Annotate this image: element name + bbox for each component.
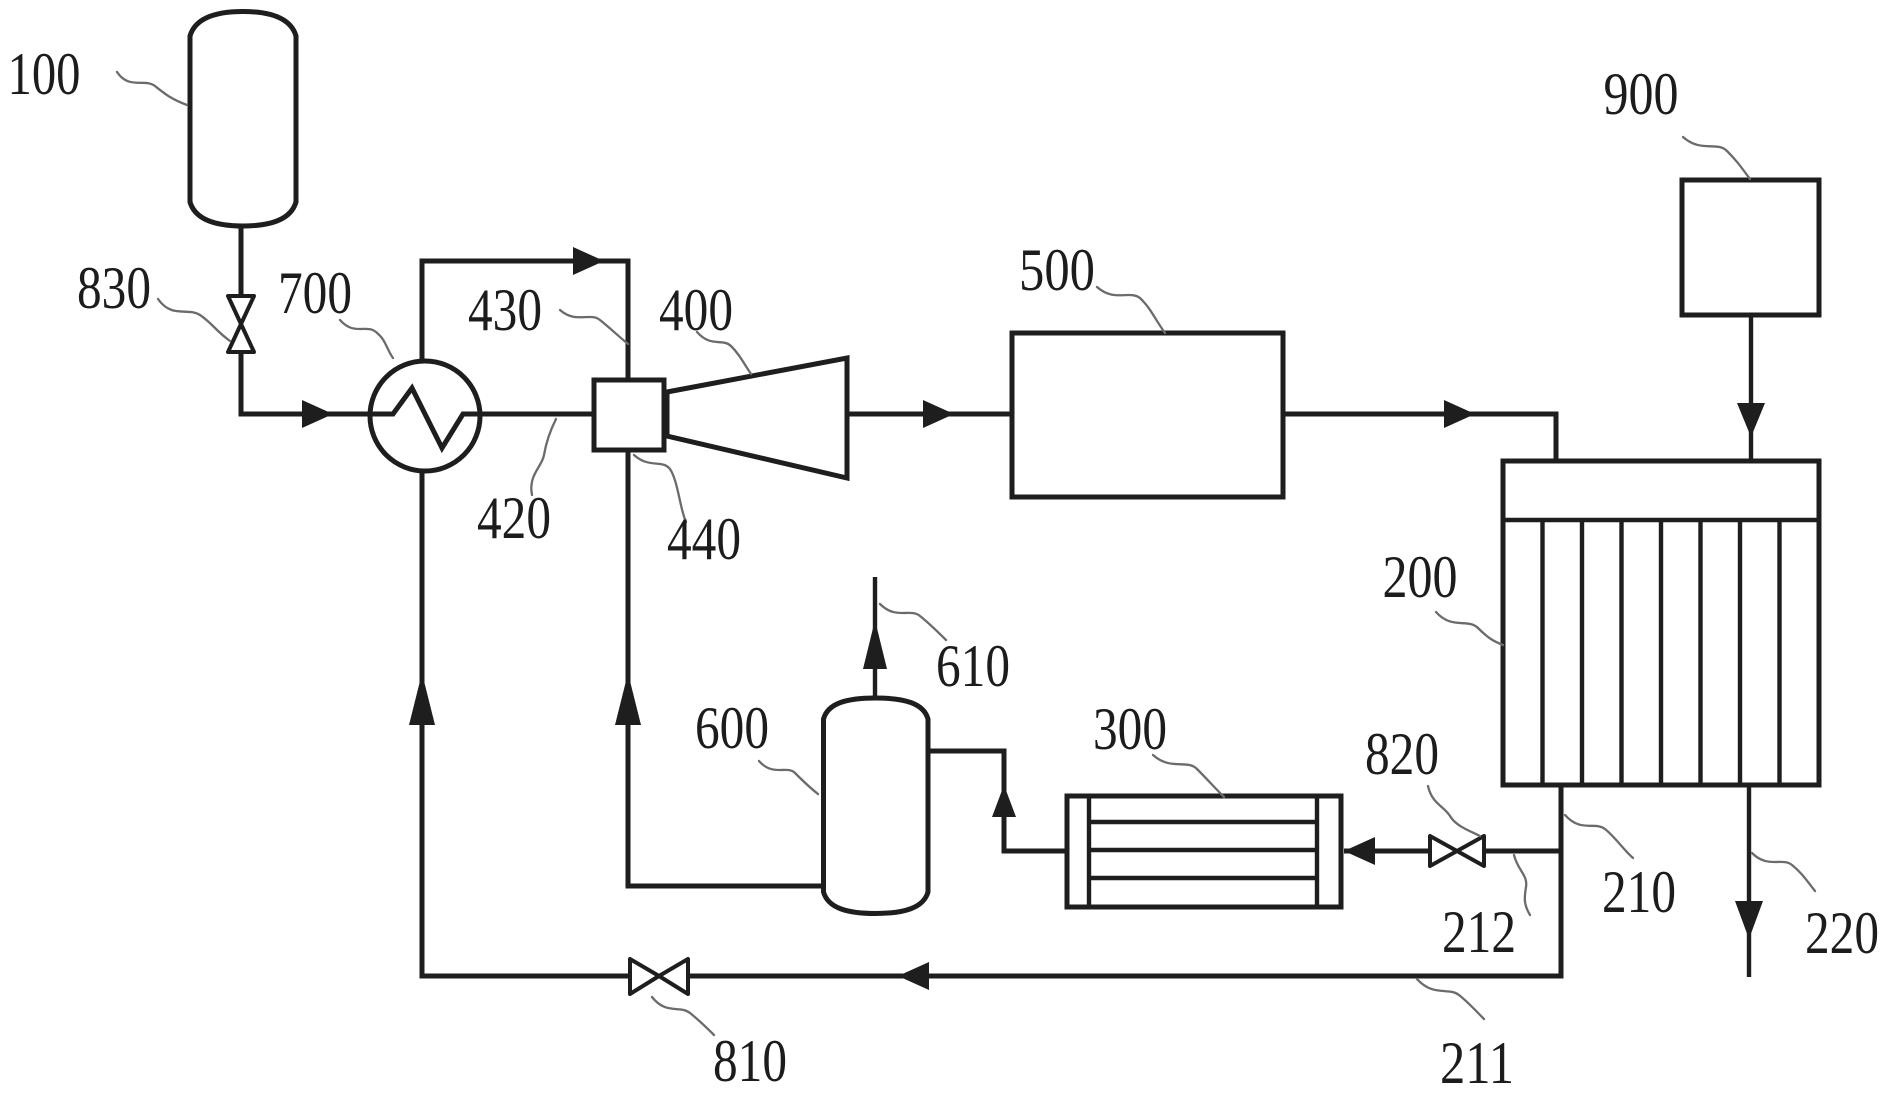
tank 100 bbox=[190, 12, 296, 227]
leader line for label 211 bbox=[1417, 979, 1484, 1019]
leader line for label 700 bbox=[340, 320, 393, 358]
valve 830 bbox=[228, 296, 254, 352]
svg-text:610: 610 bbox=[936, 633, 1010, 699]
wire 212 from stack drain to valve 820 bbox=[1484, 849, 1561, 854]
label 220 bbox=[1805, 900, 1879, 966]
wire box 900 down to stack 200 bbox=[1749, 315, 1753, 461]
label 700 bbox=[278, 260, 352, 326]
svg-text:210: 210 bbox=[1602, 859, 1676, 925]
arrow on bypass 430 bbox=[573, 247, 604, 275]
wire vessel 600 outlet to cooler 300 bbox=[928, 751, 1069, 851]
leader line for label 220 bbox=[1752, 853, 1815, 891]
wire vent 610 from vessel 600 top bbox=[873, 577, 877, 696]
wire 440 mixer bottom to vessel 600 bbox=[628, 450, 823, 886]
svg-text:440: 440 bbox=[667, 506, 741, 572]
label 810 bbox=[713, 1028, 787, 1094]
leader line for label 900 bbox=[1683, 137, 1750, 179]
leader line for label 420 bbox=[531, 419, 556, 495]
svg-text:600: 600 bbox=[695, 695, 769, 761]
cooler 300 bbox=[1067, 796, 1341, 907]
wire valve 820 to cooler 300 bbox=[1344, 849, 1430, 854]
svg-text:400: 400 bbox=[659, 277, 733, 343]
mixer 420 box bbox=[594, 380, 664, 450]
turbine 400 bbox=[667, 358, 847, 478]
leader line for label 400 bbox=[697, 332, 751, 374]
wire tank 100 to valve 830 bbox=[239, 226, 244, 296]
svg-text:420: 420 bbox=[477, 485, 551, 551]
arrow into box 500 bbox=[923, 400, 954, 428]
leader line for label 610 bbox=[880, 604, 946, 640]
leader line for label 810 bbox=[652, 997, 714, 1035]
arrow up on riser bbox=[409, 673, 435, 725]
label 211 bbox=[1440, 1030, 1514, 1094]
stack 200 bbox=[1503, 461, 1819, 785]
leader line for label 440 bbox=[634, 455, 686, 522]
leader line for label 300 bbox=[1153, 755, 1224, 797]
wire box 500 to stack 200 top left bbox=[1283, 414, 1556, 463]
label 820 bbox=[1365, 721, 1439, 787]
svg-text:700: 700 bbox=[278, 260, 352, 326]
arrow up on vessel outlet riser bbox=[992, 785, 1016, 817]
label 420 bbox=[477, 485, 551, 551]
label 500 bbox=[1019, 237, 1095, 303]
svg-text:900: 900 bbox=[1604, 61, 1679, 127]
svg-text:220: 220 bbox=[1805, 900, 1879, 966]
svg-text:830: 830 bbox=[77, 255, 151, 321]
svg-text:810: 810 bbox=[713, 1028, 787, 1094]
leader line for label 500 bbox=[1097, 287, 1165, 333]
svg-text:212: 212 bbox=[1442, 899, 1516, 965]
label 300 bbox=[1093, 696, 1167, 762]
leader line for label 212 bbox=[1514, 855, 1530, 915]
box 500 bbox=[1012, 333, 1283, 497]
arrow up on wire 440 bbox=[615, 673, 641, 725]
wire valve 830 to heat exchanger 700 bbox=[241, 352, 370, 414]
leader line for label 600 bbox=[759, 761, 818, 794]
svg-text:500: 500 bbox=[1019, 237, 1095, 303]
label 100 bbox=[8, 41, 81, 107]
leader line for label 100 bbox=[117, 72, 187, 105]
label 610 bbox=[936, 633, 1010, 699]
label 400 bbox=[659, 277, 733, 343]
label 600 bbox=[695, 695, 769, 761]
arrow into heat exchanger 700 bbox=[302, 400, 333, 428]
wire 430 bypass from heat exchanger top to mixer top bbox=[422, 261, 628, 380]
label 200 bbox=[1383, 544, 1458, 610]
arrow left on bottom rail 211 bbox=[898, 962, 929, 990]
label 900 bbox=[1604, 61, 1679, 127]
arrow on wire to stack 200 bbox=[1444, 400, 1475, 428]
wire 220 stack outlet down bbox=[1747, 784, 1751, 977]
box 900 bbox=[1682, 180, 1819, 315]
label 430 bbox=[468, 277, 542, 343]
wire bottom rail 211 from valve 810 to stack 200 bottom bbox=[688, 784, 1561, 976]
leader line for label 200 bbox=[1436, 612, 1503, 645]
vessel 600 bbox=[824, 698, 929, 914]
valve 820 bbox=[1430, 836, 1484, 866]
label 210 bbox=[1602, 859, 1676, 925]
arrow left into cooler 300 bbox=[1344, 837, 1375, 865]
wire turbine 400 outlet to box 500 bbox=[846, 412, 1012, 417]
svg-text:211: 211 bbox=[1440, 1030, 1514, 1094]
svg-text:300: 300 bbox=[1093, 696, 1167, 762]
label 440 bbox=[667, 506, 741, 572]
leader line for label 830 bbox=[158, 299, 230, 341]
leader line for label 210 bbox=[1565, 815, 1633, 858]
arrow down into stack 200 bbox=[1737, 403, 1765, 437]
svg-text:430: 430 bbox=[468, 277, 542, 343]
arrow up on vent 610 bbox=[863, 620, 887, 669]
wire riser from heat exchanger 700 bottom to bottom rail and valve 810 bbox=[422, 469, 630, 976]
svg-text:100: 100 bbox=[8, 41, 81, 107]
leader line for label 430 bbox=[560, 310, 628, 344]
wire 420 heat exchanger 700 to mixer bbox=[478, 412, 594, 417]
label 830 bbox=[77, 255, 151, 321]
svg-text:200: 200 bbox=[1383, 544, 1458, 610]
leader line for label 820 bbox=[1428, 786, 1480, 836]
label 212 bbox=[1442, 899, 1516, 965]
heat exchanger 700 bbox=[370, 361, 480, 471]
svg-text:820: 820 bbox=[1365, 721, 1439, 787]
arrow down on wire 220 bbox=[1735, 901, 1763, 939]
valve 810 bbox=[630, 959, 688, 994]
